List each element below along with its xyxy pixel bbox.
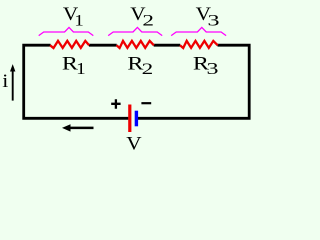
label R2: [127, 53, 153, 78]
svg-text:V: V: [126, 134, 142, 154]
label R3: [193, 53, 219, 78]
brace over R1 (V1 measurement): [39, 27, 94, 35]
current arrow i (pointing up, left of circuit): [10, 64, 15, 101]
minus sign at battery negative terminal: [141, 102, 151, 104]
resistor R3: [180, 41, 218, 48]
battery V positive plate (long, red): [128, 105, 131, 133]
label V3: [196, 4, 220, 29]
brace over R3 (V3 measurement): [171, 27, 226, 35]
wire: top segment between R1 and R2: [89, 44, 117, 47]
resistor R2: [117, 41, 154, 48]
battery V negative plate (short, blue): [135, 111, 138, 127]
wire: top-left segment + left side + bottom-left to battery positive plate: [24, 45, 129, 118]
wire: top-right segment + right side + bottom-right to battery negative plate: [138, 45, 249, 118]
resistor R1: [50, 41, 89, 48]
current direction arrow on bottom wire (pointing left): [62, 124, 94, 131]
label V (battery voltage): [126, 134, 142, 154]
svg-text:2: 2: [142, 12, 154, 30]
label i (current): [2, 71, 8, 92]
plus sign at battery positive terminal: [111, 99, 120, 109]
svg-text:3: 3: [207, 61, 219, 78]
wire: top segment between R2 and R3: [154, 44, 181, 47]
svg-text:i: i: [2, 71, 8, 92]
svg-text:2: 2: [142, 60, 154, 78]
label V2: [130, 4, 154, 29]
brace over R2 (V2 measurement): [108, 27, 162, 35]
svg-text:1: 1: [74, 11, 84, 29]
label V1: [63, 4, 84, 29]
svg-text:3: 3: [208, 12, 220, 29]
label R1: [62, 53, 86, 78]
svg-text:1: 1: [76, 59, 86, 77]
